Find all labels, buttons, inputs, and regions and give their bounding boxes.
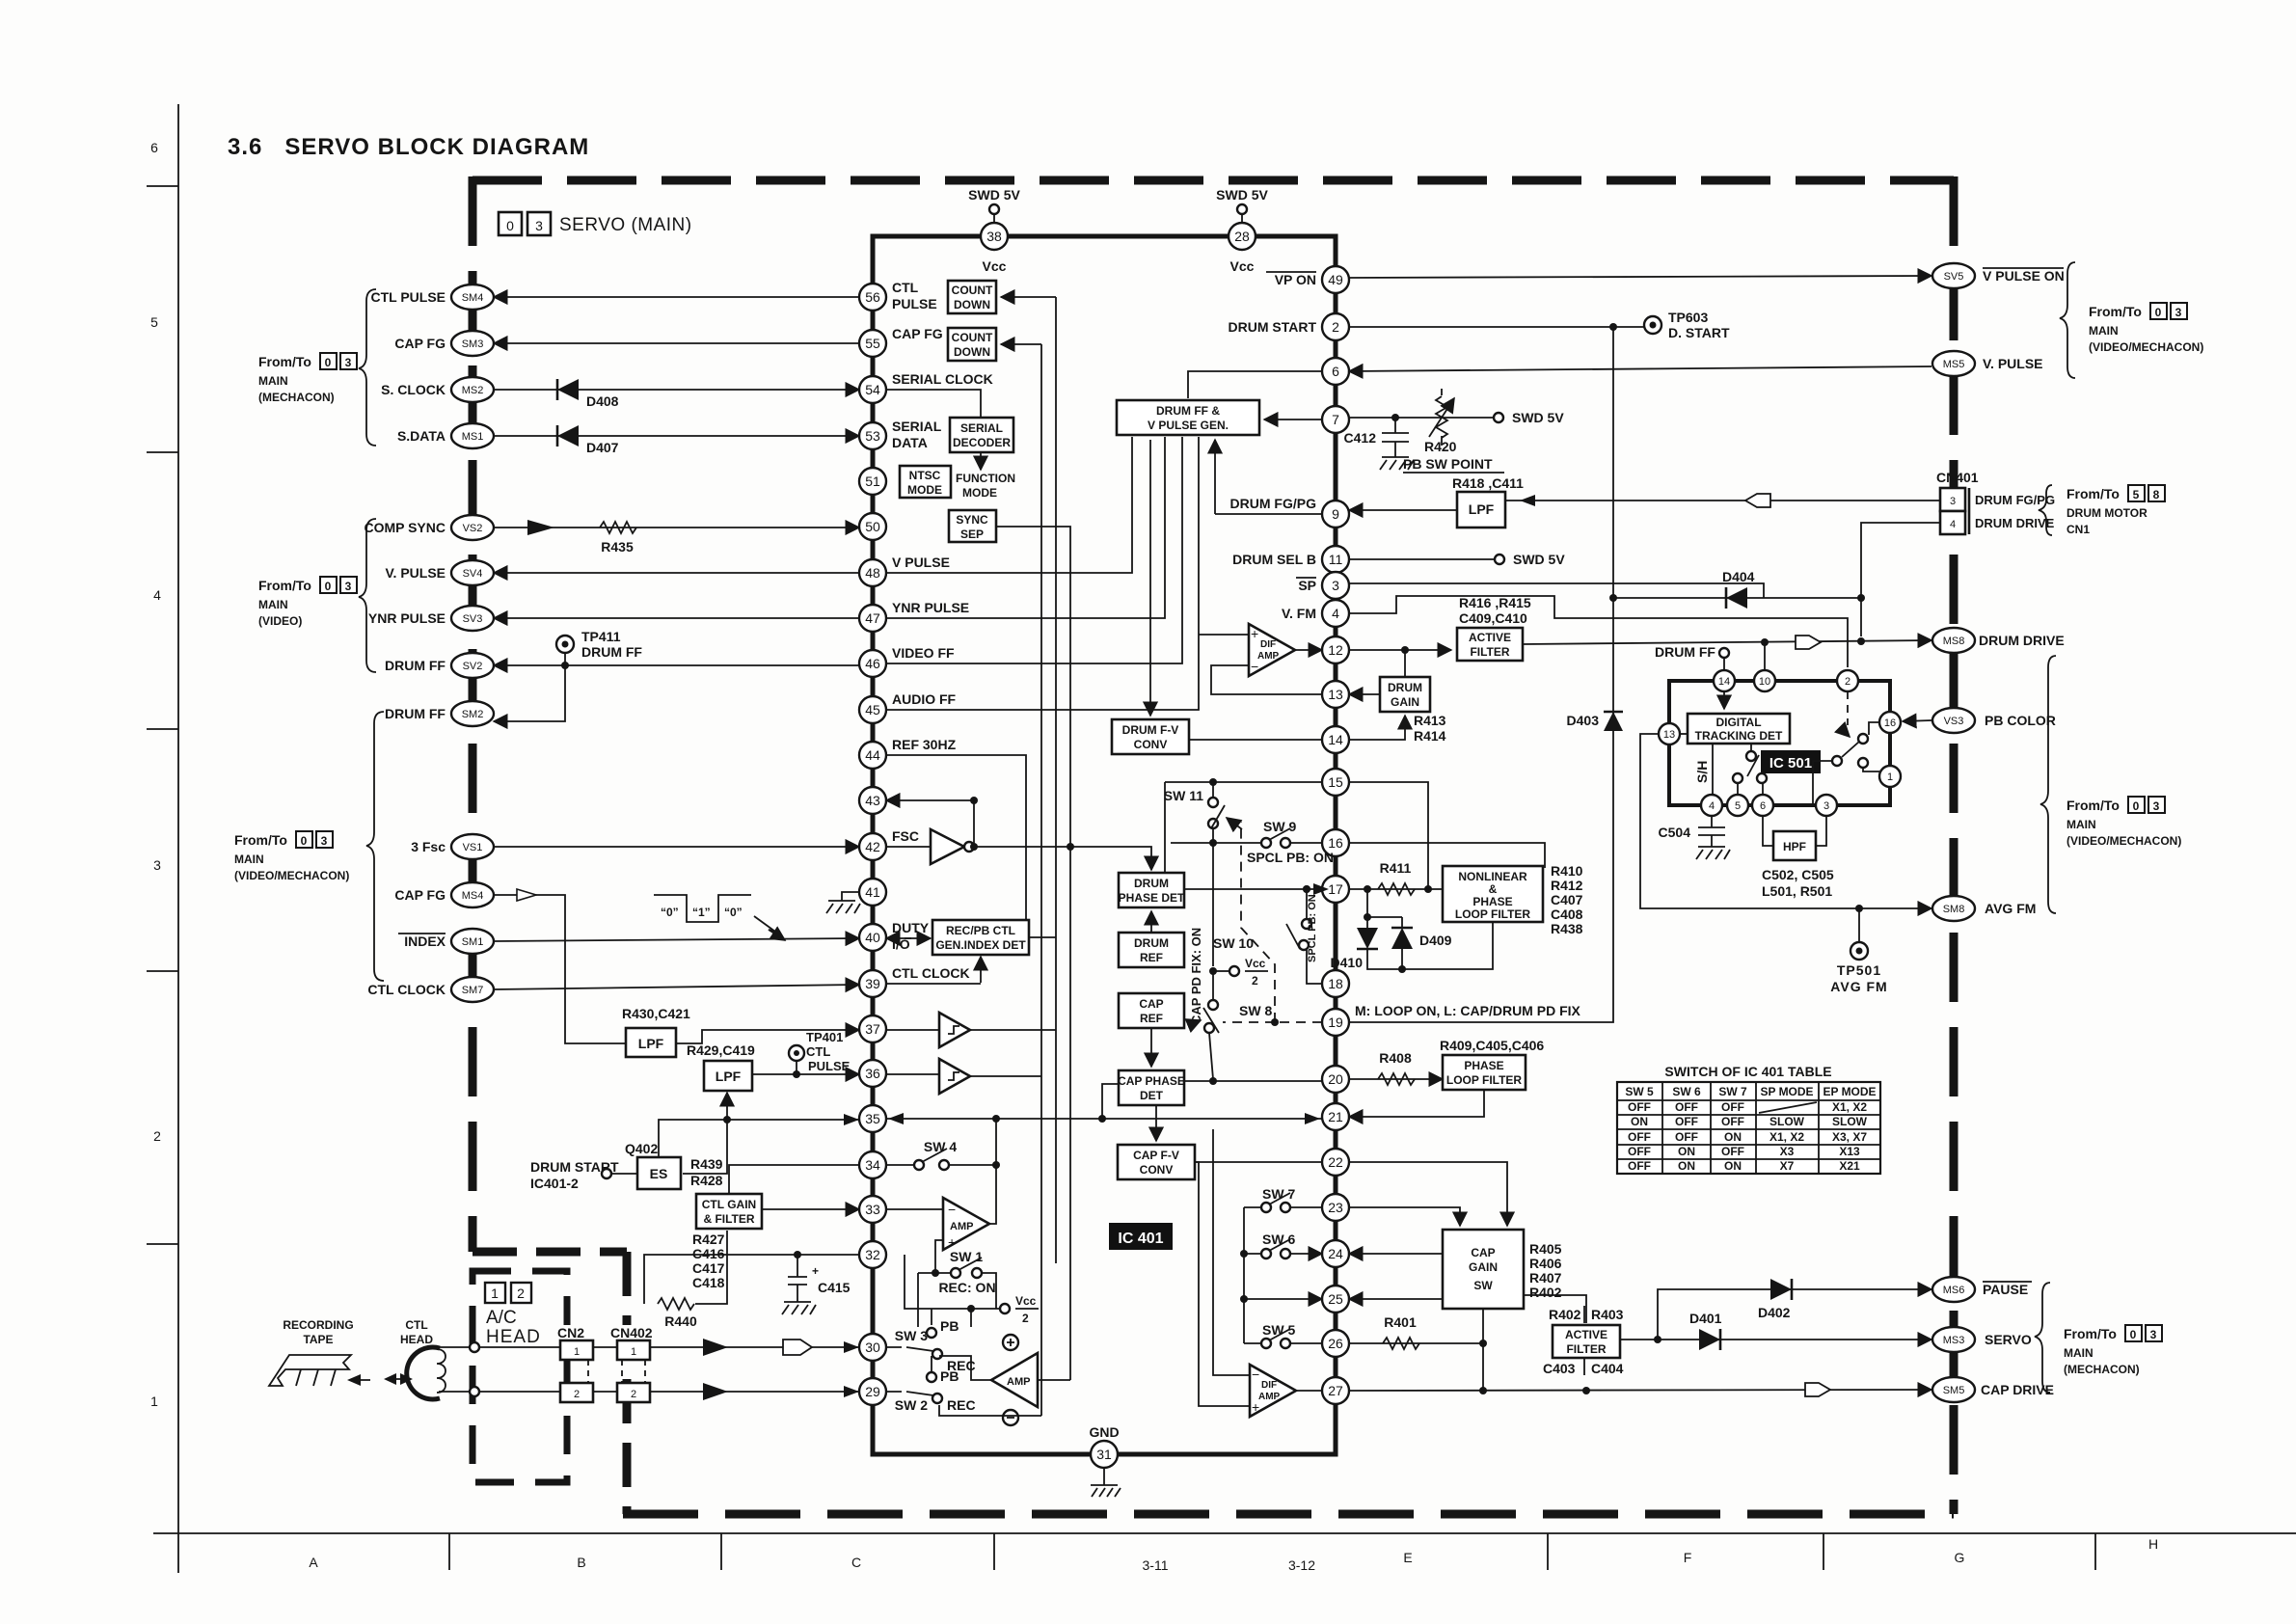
wire count down 1 input bbox=[1001, 296, 1056, 298]
svg-text:R409,C405,C406: R409,C405,C406 bbox=[1440, 1038, 1544, 1053]
label S.DATA bbox=[397, 428, 446, 444]
connector CN2 bbox=[554, 1325, 593, 1402]
svg-text:VS1: VS1 bbox=[463, 842, 483, 853]
svg-text:DRUM F-V: DRUM F-V bbox=[1122, 723, 1179, 737]
pin 30 bbox=[859, 1334, 886, 1361]
pin 28 top bbox=[1229, 223, 1256, 250]
block DRUM GAIN bbox=[1380, 677, 1430, 712]
LPF block R429 C419 bbox=[687, 1042, 755, 1091]
pin 35 bbox=[859, 1105, 886, 1132]
pin label CTL CLOCK bbox=[892, 965, 970, 981]
terminal Vcc/2 sw8 bbox=[1209, 843, 1268, 988]
svg-text:47: 47 bbox=[865, 610, 880, 626]
label V. PULSE bbox=[1983, 356, 2043, 371]
svg-text:(VIDEO): (VIDEO) bbox=[258, 614, 302, 628]
wire ic501 pin13 to DTD bbox=[1680, 733, 1688, 735]
svg-text:C: C bbox=[851, 1555, 861, 1570]
connector SM4 bbox=[451, 284, 494, 310]
svg-text:4: 4 bbox=[1950, 519, 1956, 530]
svg-text:10: 10 bbox=[1759, 676, 1770, 688]
svg-text:GEN.INDEX DET: GEN.INDEX DET bbox=[935, 938, 1026, 952]
svg-text:DRUM FF: DRUM FF bbox=[581, 644, 642, 660]
wire VS2 to pin 50 with resistor R435 bbox=[494, 520, 859, 535]
op-amp DIF AMP cap bbox=[1250, 1365, 1296, 1417]
pin 48 bbox=[859, 559, 886, 586]
svg-text:SW 9: SW 9 bbox=[1263, 819, 1296, 834]
svg-text:0: 0 bbox=[2155, 306, 2162, 319]
svg-text:41: 41 bbox=[865, 884, 880, 900]
IC501 pin 10 bbox=[1754, 670, 1775, 691]
connector SM5 bbox=[1932, 1377, 1975, 1402]
IC501 pin 6 bbox=[1752, 795, 1773, 816]
arrow serial decoder to function mode bbox=[980, 452, 982, 470]
wire recpb out right bbox=[1029, 936, 1056, 938]
schmitt buffer pin 36 bbox=[939, 1059, 970, 1094]
pin label AUDIO FF bbox=[892, 691, 957, 707]
svg-text:(VIDEO/MECHACON): (VIDEO/MECHACON) bbox=[2066, 834, 2181, 848]
pin 21 bbox=[1322, 1103, 1349, 1130]
svg-text:2: 2 bbox=[1252, 974, 1258, 988]
GND symbol below pin 31 bbox=[1091, 1468, 1121, 1497]
svg-text:R414: R414 bbox=[1414, 728, 1446, 744]
wire vp gen from drum fg pin 9 arrow bbox=[1215, 440, 1322, 514]
label CAP FG bbox=[394, 336, 446, 351]
wire S/H from DTD to pin4 bbox=[1694, 744, 1713, 795]
svg-text:S.DATA: S.DATA bbox=[397, 428, 446, 444]
svg-text:42: 42 bbox=[865, 839, 880, 854]
svg-text:MS6: MS6 bbox=[1943, 1285, 1965, 1296]
wire cap gain sw to pin 24 bbox=[1349, 1253, 1443, 1255]
svg-text:SM8: SM8 bbox=[1943, 904, 1965, 915]
svg-text:R407: R407 bbox=[1529, 1270, 1562, 1286]
block CAP PHASE DET bbox=[1118, 1070, 1185, 1105]
svg-text:SWD 5V: SWD 5V bbox=[1513, 552, 1565, 567]
wire drum gain input from node bbox=[1404, 650, 1406, 677]
block NONLINEAR & PHASE LOOP FILTER bbox=[1443, 866, 1543, 922]
wire SM4 to pin 56 bbox=[494, 296, 859, 298]
svg-text:SP: SP bbox=[1298, 578, 1316, 593]
pin 51 bbox=[859, 468, 886, 495]
svg-text:DRUM: DRUM bbox=[1134, 877, 1169, 890]
wire pin 34 to sw4 to amp out node bbox=[886, 1164, 996, 1166]
diode D402 bbox=[1758, 1279, 1792, 1320]
svg-text:X1, X2: X1, X2 bbox=[1769, 1130, 1804, 1144]
svg-text:LPF: LPF bbox=[1469, 501, 1495, 517]
svg-text:3-12: 3-12 bbox=[1288, 1557, 1315, 1573]
svg-text:From/To: From/To bbox=[234, 832, 287, 848]
svg-text:“0”: “0” bbox=[661, 906, 679, 919]
column letter F bbox=[1684, 1550, 1692, 1565]
svg-text:−: − bbox=[1252, 1367, 1259, 1382]
label SPCL PB:ON sw10 rotated bbox=[1307, 894, 1318, 962]
svg-text:54: 54 bbox=[865, 382, 880, 397]
svg-text:7: 7 bbox=[1332, 412, 1339, 427]
svg-text:From/To: From/To bbox=[2066, 798, 2120, 813]
brace video group bbox=[359, 519, 376, 672]
wire count down 2 input bbox=[1001, 343, 1041, 345]
svg-text:V. PULSE: V. PULSE bbox=[385, 565, 446, 581]
svg-text:PB SW POINT: PB SW POINT bbox=[1403, 456, 1493, 472]
svg-text:23: 23 bbox=[1328, 1200, 1343, 1215]
svg-text:46: 46 bbox=[865, 656, 880, 671]
svg-text:C408: C408 bbox=[1551, 907, 1583, 922]
svg-text:SM1: SM1 bbox=[462, 936, 484, 948]
IC 501 black label bbox=[1761, 750, 1821, 773]
diode D401 bbox=[1689, 1311, 1722, 1350]
svg-text:Vcc: Vcc bbox=[1015, 1294, 1037, 1308]
svg-text:13: 13 bbox=[1328, 687, 1343, 702]
svg-text:MODE: MODE bbox=[907, 483, 942, 497]
svg-text:ACTIVE: ACTIVE bbox=[1469, 631, 1511, 644]
svg-text:OFF: OFF bbox=[1628, 1130, 1651, 1144]
svg-text:2: 2 bbox=[631, 1389, 636, 1400]
pb color switch in ic501 bbox=[1813, 691, 1879, 805]
wire pin 2 drum start to TP603 bbox=[1349, 323, 1644, 331]
diode D408 bbox=[557, 379, 619, 409]
block PHASE LOOP FILTER bbox=[1440, 1038, 1544, 1090]
svg-text:39: 39 bbox=[865, 976, 880, 991]
svg-text:EP MODE: EP MODE bbox=[1823, 1085, 1876, 1098]
pin 3 bbox=[1322, 572, 1349, 599]
row number 3 bbox=[153, 857, 161, 873]
svg-text:C412: C412 bbox=[1344, 430, 1377, 446]
pin label DUTY I/O bbox=[892, 920, 930, 952]
switch SW3 bbox=[895, 1318, 976, 1373]
svg-text:R412: R412 bbox=[1551, 878, 1583, 893]
column letter C bbox=[851, 1555, 861, 1570]
connector SM8 bbox=[1932, 896, 1975, 921]
svg-text:13: 13 bbox=[1663, 729, 1675, 741]
svg-text:DIF: DIF bbox=[1261, 1380, 1277, 1391]
label SERVO bbox=[1985, 1332, 2032, 1347]
svg-text:&: & bbox=[1489, 882, 1498, 896]
svg-text:TRACKING DET: TRACKING DET bbox=[1695, 729, 1783, 743]
svg-text:IC401-2: IC401-2 bbox=[530, 1176, 579, 1191]
svg-text:C417: C417 bbox=[692, 1260, 725, 1276]
svg-text:PHASE: PHASE bbox=[1472, 895, 1512, 908]
arrows on head wires bbox=[703, 1339, 812, 1400]
transistor block Q402 ES bbox=[625, 1141, 681, 1189]
svg-text:REF: REF bbox=[1140, 951, 1163, 964]
svg-text:(VIDEO/MECHACON): (VIDEO/MECHACON) bbox=[234, 869, 349, 882]
pin label GND bbox=[1089, 1424, 1119, 1440]
wire pin 7 to SWD 5V with C412 R420 bbox=[1349, 410, 1564, 425]
block NTSC MODE bbox=[900, 466, 951, 498]
pin 46 bbox=[859, 650, 886, 677]
wire MS2 to pin 54 with diode D408 bbox=[494, 389, 859, 391]
svg-text:C504: C504 bbox=[1659, 825, 1691, 840]
label RECORDING TAPE bbox=[283, 1318, 353, 1346]
sample switch DTD to pin6 bbox=[1746, 744, 1767, 795]
switch SW5 bbox=[1244, 1322, 1322, 1348]
svg-text:36: 36 bbox=[865, 1066, 880, 1081]
column letter G bbox=[1955, 1550, 1965, 1565]
pin 9 bbox=[1322, 501, 1349, 528]
terminal DRUM START IC401-2 bbox=[530, 1159, 637, 1191]
column letter B bbox=[577, 1555, 585, 1570]
label PAUSE with overline bbox=[1983, 1282, 2032, 1297]
svg-text:YNR PULSE: YNR PULSE bbox=[892, 600, 969, 615]
svg-text:F: F bbox=[1684, 1550, 1692, 1565]
svg-text:SPCL PB: ON: SPCL PB: ON bbox=[1247, 850, 1334, 865]
connector SM7 bbox=[451, 977, 494, 1002]
brace drum motor bbox=[2039, 485, 2052, 535]
svg-text:OFF: OFF bbox=[1721, 1100, 1744, 1114]
svg-text:(MECHACON): (MECHACON) bbox=[2064, 1363, 2140, 1376]
board outer dashed border left edge bbox=[469, 176, 477, 1252]
pin 29 bbox=[859, 1378, 886, 1405]
svg-text:+: + bbox=[1251, 626, 1258, 641]
svg-text:DRUM FF: DRUM FF bbox=[385, 706, 446, 721]
svg-text:−: − bbox=[1251, 659, 1258, 674]
pin 50 bbox=[859, 513, 886, 540]
svg-text:V PULSE: V PULSE bbox=[892, 555, 950, 570]
svg-text:R440: R440 bbox=[664, 1313, 697, 1329]
wire pin 11 to SWD 5V bbox=[1349, 552, 1565, 567]
svg-text:CTL GAIN: CTL GAIN bbox=[702, 1198, 756, 1211]
svg-text:R427: R427 bbox=[692, 1232, 725, 1247]
op-amp AMP head amp bbox=[991, 1353, 1038, 1407]
label From/To 0 3 MAIN (VIDEO/MECHACON) right top bbox=[2089, 303, 2203, 354]
svg-text:1: 1 bbox=[491, 1286, 499, 1301]
svg-text:REC/PB CTL: REC/PB CTL bbox=[946, 924, 1015, 937]
board outer dashed border top edge bbox=[473, 176, 1954, 185]
svg-text:HEAD: HEAD bbox=[400, 1333, 433, 1346]
pin 18 bbox=[1322, 970, 1349, 997]
wire active filter to MS8 bbox=[1523, 636, 1931, 649]
svg-text:FILTER: FILTER bbox=[1470, 645, 1509, 659]
svg-text:DRUM FG/PG: DRUM FG/PG bbox=[1230, 496, 1317, 511]
svg-text:G: G bbox=[1955, 1550, 1965, 1565]
wire pin 48 to SV4 bbox=[494, 572, 859, 574]
svg-text:MS4: MS4 bbox=[462, 890, 484, 902]
svg-text:MAIN: MAIN bbox=[258, 598, 288, 611]
column letter H bbox=[2148, 1536, 2158, 1552]
svg-text:6: 6 bbox=[1760, 800, 1766, 812]
svg-text:HPF: HPF bbox=[1783, 840, 1806, 853]
wire pin37 buffer tail bbox=[886, 1029, 1056, 1031]
board designator 0 3 SERVO (MAIN) bbox=[499, 212, 692, 235]
pin 25 bbox=[1322, 1286, 1349, 1313]
wire MS1 to pin 53 with diode D407 bbox=[494, 435, 859, 437]
svg-text:CONV: CONV bbox=[1134, 738, 1168, 751]
wire active filter 2 to MS3 with D401 bbox=[1620, 1336, 1931, 1343]
svg-text:0: 0 bbox=[301, 834, 308, 848]
svg-text:CTL: CTL bbox=[405, 1318, 427, 1332]
wire pin 15 outside riser bbox=[1349, 782, 1432, 893]
svg-text:GAIN: GAIN bbox=[1391, 695, 1419, 709]
svg-text:PB: PB bbox=[940, 1318, 959, 1334]
tape motion arrow bbox=[347, 1374, 370, 1386]
svg-text:M: LOOP ON, L: CAP/DRUM PD FIX: M: LOOP ON, L: CAP/DRUM PD FIX bbox=[1355, 1003, 1581, 1018]
svg-text:45: 45 bbox=[865, 702, 880, 717]
wire SM1 index to pin 40 bbox=[494, 938, 859, 941]
svg-text:R438: R438 bbox=[1551, 921, 1583, 936]
svg-text:MS5: MS5 bbox=[1943, 359, 1965, 370]
svg-text:14: 14 bbox=[1328, 732, 1343, 747]
wire LPF1 to pin 37 bbox=[676, 1030, 859, 1043]
svg-text:D409: D409 bbox=[1419, 933, 1452, 948]
wire head amp input bus bbox=[1038, 1162, 1070, 1416]
svg-text:DRUM DRIVE: DRUM DRIVE bbox=[1975, 516, 2055, 530]
pin 22 bbox=[1322, 1149, 1349, 1176]
svg-text:H: H bbox=[2148, 1536, 2158, 1552]
switch SW8 bbox=[1189, 1000, 1272, 1033]
wire amp out up to pin34 and pin 35 bbox=[989, 1115, 1000, 1224]
terminal Vcc/2 sw1 bbox=[1000, 1294, 1039, 1325]
svg-text:OFF: OFF bbox=[1721, 1115, 1744, 1128]
connector MS1 bbox=[451, 423, 494, 448]
wire pin 46 to SV2 bbox=[494, 664, 859, 666]
label V. PULSE bbox=[385, 565, 446, 581]
svg-text:SV5: SV5 bbox=[1944, 271, 1964, 283]
wire sw10 net pin17 to pin18 bbox=[1303, 885, 1322, 984]
svg-text:MS8: MS8 bbox=[1943, 636, 1965, 647]
pin 40 bbox=[859, 924, 886, 951]
svg-text:Vcc: Vcc bbox=[1230, 258, 1255, 274]
svg-text:DOWN: DOWN bbox=[954, 298, 990, 311]
svg-text:MS2: MS2 bbox=[462, 385, 484, 396]
svg-text:SWITCH OF IC 401 TABLE: SWITCH OF IC 401 TABLE bbox=[1664, 1064, 1831, 1079]
svg-text:R413: R413 bbox=[1414, 713, 1446, 728]
svg-text:−: − bbox=[948, 1202, 956, 1217]
connector MS2 bbox=[451, 377, 494, 402]
brace right top video-mechacon bbox=[2060, 262, 2075, 378]
svg-text:DRUM MOTOR: DRUM MOTOR bbox=[2066, 506, 2147, 520]
svg-text:5: 5 bbox=[150, 314, 158, 330]
wire sw1 node down to pb contacts bbox=[918, 1273, 971, 1327]
column label 3-11 bbox=[1143, 1557, 1169, 1573]
svg-text:CTL: CTL bbox=[806, 1044, 830, 1059]
pin 45 bbox=[859, 696, 886, 723]
svg-text:33: 33 bbox=[865, 1202, 880, 1217]
svg-text:17: 17 bbox=[1328, 881, 1343, 897]
IC501 pin 1 bbox=[1879, 766, 1901, 787]
row number 4 bbox=[153, 587, 161, 603]
svg-text:SEP: SEP bbox=[960, 528, 984, 541]
ground stub pin 41 bbox=[826, 892, 860, 913]
svg-text:REF: REF bbox=[1140, 1012, 1163, 1025]
connector SV5 bbox=[1932, 263, 1975, 288]
svg-text:D. START: D. START bbox=[1668, 325, 1730, 340]
wire pin 22 to cap gain sw bbox=[1349, 1162, 1507, 1226]
svg-text:SM2: SM2 bbox=[462, 709, 484, 720]
pin 7 bbox=[1322, 406, 1349, 433]
wire cap fv conv out to pin 22 bbox=[1195, 1161, 1322, 1163]
wire v pulse pin 48 riser bbox=[886, 437, 1132, 573]
svg-text:R428: R428 bbox=[690, 1173, 723, 1188]
resistor R408 bbox=[1378, 1050, 1415, 1085]
IC501 pin 2 bbox=[1837, 670, 1858, 691]
svg-text:YNR PULSE: YNR PULSE bbox=[368, 610, 446, 626]
connector SV4 bbox=[451, 560, 494, 585]
svg-text:SWD 5V: SWD 5V bbox=[1512, 410, 1564, 425]
wire pin 17 through R411 to nonlinear bbox=[1349, 885, 1443, 893]
pin 44 bbox=[859, 742, 886, 769]
Vcc label pin 28 bbox=[1230, 258, 1255, 274]
wire sync sep out bbox=[996, 527, 1074, 1380]
block DIGITAL TRACKING DET bbox=[1688, 714, 1790, 744]
IC401 body rectangle bbox=[873, 236, 1336, 1454]
svg-text:+: + bbox=[812, 1264, 819, 1278]
pin label DRUM FG/PG bbox=[1230, 496, 1317, 511]
svg-text:R403: R403 bbox=[1591, 1307, 1624, 1322]
svg-text:D403: D403 bbox=[1567, 713, 1600, 728]
svg-text:R439: R439 bbox=[690, 1156, 723, 1172]
wire dif amp cap inputs bbox=[1195, 1129, 1250, 1406]
svg-text:AMP: AMP bbox=[1258, 1392, 1281, 1402]
pin 41 bbox=[859, 879, 886, 906]
svg-text:SW 2: SW 2 bbox=[895, 1397, 928, 1413]
block DRUM F-V CONV bbox=[1112, 719, 1189, 754]
svg-text:D401: D401 bbox=[1689, 1311, 1722, 1326]
brace video-mechacon group bbox=[366, 712, 384, 981]
pin 33 bbox=[859, 1196, 886, 1223]
pin 17 bbox=[1322, 876, 1349, 903]
svg-text:3: 3 bbox=[153, 857, 161, 873]
wire ic501 pin14 arrow to DTD bbox=[1723, 691, 1725, 709]
svg-text:CN401: CN401 bbox=[1936, 470, 1979, 485]
svg-text:TP603: TP603 bbox=[1668, 310, 1708, 325]
svg-text:1: 1 bbox=[1887, 771, 1893, 783]
svg-text:SERIAL: SERIAL bbox=[960, 421, 1003, 435]
svg-text:4: 4 bbox=[1709, 800, 1715, 812]
pin 53 bbox=[859, 422, 886, 449]
svg-text:1: 1 bbox=[150, 1394, 158, 1409]
svg-text:INDEX: INDEX bbox=[404, 934, 446, 949]
terminal DRUM FF ic501 bbox=[1655, 644, 1729, 670]
svg-text:18: 18 bbox=[1328, 976, 1343, 991]
connector VS3 bbox=[1932, 708, 1975, 733]
svg-text:X21: X21 bbox=[1839, 1159, 1860, 1173]
label V PULSE ON with overline bbox=[1983, 268, 2065, 284]
dashed control line pin19 to sw8 sw11 bbox=[1223, 822, 1322, 1026]
svg-text:SM3: SM3 bbox=[462, 338, 484, 350]
label COMP SYNC bbox=[364, 520, 446, 535]
svg-text:From/To: From/To bbox=[258, 578, 311, 593]
svg-text:6: 6 bbox=[1332, 364, 1339, 379]
pin 43 bbox=[859, 787, 886, 814]
svg-text:R435: R435 bbox=[601, 539, 634, 555]
svg-text:VIDEO FF: VIDEO FF bbox=[892, 645, 955, 661]
diode D407 bbox=[557, 425, 619, 455]
row number 1 bbox=[150, 1394, 158, 1409]
connector MS6 bbox=[1932, 1277, 1975, 1302]
svg-text:“0”: “0” bbox=[724, 906, 743, 919]
svg-text:COMP SYNC: COMP SYNC bbox=[364, 520, 446, 535]
pin label SERIAL CLOCK bbox=[892, 371, 993, 387]
wire CTL GAIN top to pin 34 net bbox=[729, 1165, 859, 1194]
pin label DRUM START bbox=[1228, 319, 1316, 335]
svg-text:15: 15 bbox=[1328, 774, 1343, 790]
wire drum fv conv out to pin 14 bbox=[1189, 739, 1322, 741]
svg-text:2: 2 bbox=[1022, 1312, 1029, 1325]
svg-text:MODE: MODE bbox=[962, 486, 997, 500]
internal vertical bus x1080 bbox=[1040, 344, 1042, 1162]
svg-text:C415: C415 bbox=[818, 1280, 851, 1295]
svg-text:31: 31 bbox=[1096, 1447, 1112, 1462]
wire cap phase det out to pin 20 bbox=[1184, 1077, 1322, 1085]
svg-text:SP MODE: SP MODE bbox=[1760, 1085, 1813, 1098]
svg-text:TP411: TP411 bbox=[581, 629, 621, 644]
block CAP REF bbox=[1119, 993, 1184, 1028]
wire sw2 contacts bbox=[886, 1356, 1041, 1416]
page ruler bottom horizontal line bbox=[153, 1532, 2296, 1534]
svg-text:3: 3 bbox=[345, 580, 352, 593]
svg-text:CTL CLOCK: CTL CLOCK bbox=[367, 982, 446, 997]
wire ref 30hz pin 44 down bus bbox=[886, 755, 1026, 920]
wire sw8 net to pin20 rail bbox=[1209, 971, 1213, 1079]
